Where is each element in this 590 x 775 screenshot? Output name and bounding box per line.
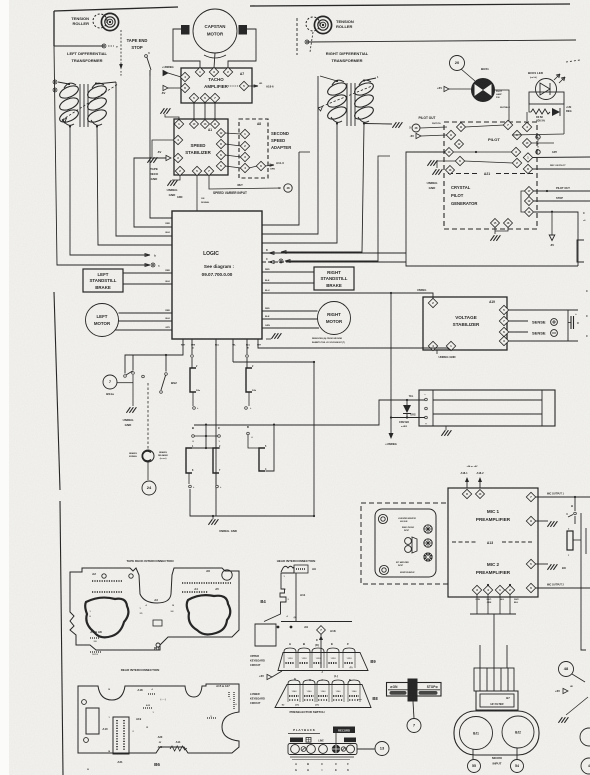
switch bar xyxy=(390,691,407,695)
pin 7 xyxy=(499,316,508,325)
pin 13 xyxy=(201,120,210,129)
contact dots xyxy=(349,695,359,697)
test dashed xyxy=(537,137,539,152)
wire BLK xyxy=(262,318,318,320)
pin 12 xyxy=(217,129,226,138)
DIN panel xyxy=(375,509,436,577)
wire xyxy=(108,45,114,47)
wire xyxy=(479,645,481,668)
supply +UNREG xyxy=(163,70,168,75)
strip line xyxy=(290,756,354,758)
wire xyxy=(479,478,481,488)
hole xyxy=(82,700,87,705)
switch bar xyxy=(419,691,438,695)
wire xyxy=(472,749,474,759)
hole xyxy=(379,565,388,574)
brush left xyxy=(181,25,190,35)
pin 6 xyxy=(499,327,508,336)
wire xyxy=(516,748,518,759)
wire bus xyxy=(470,613,516,615)
arrowhead xyxy=(145,254,150,257)
pin 1 xyxy=(446,341,455,350)
ground xyxy=(392,122,402,128)
wire long horizontal right xyxy=(308,40,576,42)
connector dots xyxy=(92,591,122,593)
wire xyxy=(567,310,569,341)
callout 55 xyxy=(468,760,481,773)
wire xyxy=(531,142,554,144)
wire xyxy=(117,382,133,384)
wire right xyxy=(581,513,586,650)
ground xyxy=(427,160,437,166)
wire xyxy=(574,497,576,511)
pin 2 xyxy=(223,67,232,76)
hatch block xyxy=(474,668,514,691)
switch hole xyxy=(347,745,355,753)
keyboard lower B8 xyxy=(275,685,371,708)
tension roller left xyxy=(71,13,118,30)
core line xyxy=(83,84,85,127)
wire top frame left xyxy=(54,7,178,11)
solenoid winding line xyxy=(433,413,542,415)
hole xyxy=(102,574,106,578)
contact dots xyxy=(286,662,295,664)
jack 2-7 xyxy=(213,448,219,473)
pin 3 xyxy=(209,67,218,76)
wire bundle L3 xyxy=(97,126,172,245)
amplifier A7 box xyxy=(181,68,252,103)
logic box U-LOGIC xyxy=(172,211,262,339)
micro input socket xyxy=(454,711,539,755)
pin 5 xyxy=(216,161,225,170)
wire xyxy=(487,594,489,614)
wire xyxy=(364,123,392,126)
motor right M3 xyxy=(318,302,351,335)
filter B7 box xyxy=(476,691,518,710)
wire GRY xyxy=(115,329,172,331)
wire xyxy=(563,104,565,134)
crossed-circle node xyxy=(279,259,283,263)
hatch line xyxy=(507,668,509,691)
ground xyxy=(547,521,557,527)
pin 6 xyxy=(526,583,535,592)
wire xyxy=(265,165,274,166)
pin 5 xyxy=(189,93,198,102)
switch hole xyxy=(291,745,300,754)
jack D2a xyxy=(190,368,196,392)
preamplifier A13 box xyxy=(448,488,538,597)
resistor R3-B8 xyxy=(531,109,550,114)
wire A11 xyxy=(295,573,297,621)
wire STOP xyxy=(533,200,590,202)
wire xyxy=(495,90,510,121)
board B6 outline xyxy=(78,684,239,753)
pin 3 xyxy=(173,153,182,162)
supply arrow xyxy=(267,674,272,679)
core line xyxy=(79,84,81,127)
ground xyxy=(432,169,442,175)
callout 24 xyxy=(142,481,156,495)
pin 6 xyxy=(256,161,265,170)
jack bar xyxy=(567,531,573,550)
adapter A8 dashed box xyxy=(239,119,268,178)
LED BCR1 xyxy=(529,92,564,104)
connector dots A6 xyxy=(182,582,231,584)
arrowhead xyxy=(285,260,290,263)
contact dots xyxy=(333,699,343,701)
wire xyxy=(436,350,438,354)
wire xyxy=(533,168,590,170)
contact arrow xyxy=(568,515,573,518)
pin 8 xyxy=(462,489,471,498)
pin 18 xyxy=(504,219,513,228)
diode xyxy=(552,108,560,116)
wire xyxy=(147,462,149,480)
pin 9 xyxy=(446,130,455,139)
A13 divider xyxy=(452,541,478,543)
wire xyxy=(320,76,337,81)
wire logic pin GRY to A19 xyxy=(258,339,451,350)
wire bundle R1 xyxy=(262,152,299,225)
wire bundle R4 xyxy=(281,124,364,253)
wire xyxy=(248,85,258,87)
pin 17 xyxy=(525,187,534,196)
connector 48 xyxy=(284,184,292,192)
page seam dashed xyxy=(296,18,298,55)
ground xyxy=(208,519,218,525)
tension roller right xyxy=(306,16,354,33)
pin 5 xyxy=(512,130,521,139)
contact dots xyxy=(304,699,314,701)
pin 2 xyxy=(505,585,514,594)
arrowhead xyxy=(318,106,323,111)
wire RED xyxy=(123,272,172,274)
hole xyxy=(84,738,89,743)
wire to solenoid YEL xyxy=(194,400,426,425)
hatch line xyxy=(479,668,481,691)
wire GRN xyxy=(262,327,319,329)
core line xyxy=(354,83,356,126)
dots xyxy=(296,568,306,570)
wire xyxy=(529,104,531,112)
strip dots xyxy=(123,720,125,750)
wire xyxy=(437,161,455,168)
solenoid box xyxy=(419,390,555,426)
pin 9 xyxy=(526,516,535,525)
wire speed varier xyxy=(209,175,281,189)
wire xyxy=(225,144,241,146)
wire +UNREG drop xyxy=(390,293,392,434)
wire xyxy=(534,212,578,266)
pin 4 xyxy=(428,341,437,350)
head bracket xyxy=(577,240,584,262)
wire logic pin GRN xyxy=(191,339,193,354)
wire logic pin BLU-B xyxy=(246,339,248,354)
switch BS1a blade xyxy=(126,371,133,375)
brake box right standstill xyxy=(314,267,354,290)
wire bundle R3 xyxy=(262,124,337,244)
wire xyxy=(320,635,322,653)
wire xyxy=(508,320,528,322)
wire xyxy=(193,102,195,120)
wire xyxy=(272,671,282,677)
wire logic pin BLU xyxy=(215,339,217,516)
socket BU1 xyxy=(460,717,493,750)
resistor A14 xyxy=(170,746,187,751)
pin 8 xyxy=(216,139,225,148)
B1 left blob xyxy=(85,598,128,638)
pin 2 xyxy=(175,166,184,175)
wire xyxy=(453,151,512,153)
wire xyxy=(512,134,564,135)
wire RED xyxy=(119,312,173,314)
ground xyxy=(167,180,177,186)
wire MIC OUTPUT 1 xyxy=(535,496,590,498)
CHO chip xyxy=(344,738,356,743)
wire xyxy=(551,212,553,235)
wire xyxy=(573,539,581,541)
diode CR2-B6 xyxy=(403,405,411,413)
arrowhead xyxy=(281,251,286,254)
wire logic pin WHT xyxy=(125,339,183,374)
wire RED xyxy=(262,310,318,312)
scan edge xyxy=(0,0,9,775)
motor capstan M1 xyxy=(193,9,237,53)
wire xyxy=(266,338,271,340)
small box xyxy=(306,738,311,743)
pin 2 xyxy=(512,158,521,167)
brake box left standstill xyxy=(83,269,123,292)
wire xyxy=(214,102,216,120)
contact dots xyxy=(349,699,359,701)
pin 1 xyxy=(495,585,504,594)
wire xyxy=(212,516,214,519)
wire xyxy=(194,435,217,437)
connector 48 xyxy=(412,124,420,132)
pin 10 xyxy=(190,120,199,129)
wire xyxy=(204,102,206,120)
core line xyxy=(87,84,89,127)
DIN socket xyxy=(424,539,432,547)
stabilizer A19 box xyxy=(423,297,507,350)
arrowhead xyxy=(270,164,274,166)
solenoid winding line xyxy=(433,399,542,401)
wire RED xyxy=(262,271,314,273)
wire xyxy=(58,82,69,84)
wire xyxy=(461,69,475,81)
supply -6V xyxy=(549,235,555,241)
wire BLK xyxy=(262,282,314,284)
switch slider xyxy=(408,679,418,702)
section divider upper xyxy=(54,292,60,490)
wire xyxy=(205,425,207,448)
switch hole xyxy=(319,745,328,754)
motor shaft arc xyxy=(204,55,226,58)
wire bundle L1 xyxy=(54,46,150,265)
contact dots xyxy=(345,662,354,664)
contact dots xyxy=(333,695,343,697)
B6 connector strip xyxy=(113,717,129,754)
jack 5-4 xyxy=(259,448,265,471)
wire xyxy=(508,340,578,342)
wire xyxy=(506,645,508,668)
callout 48 xyxy=(559,662,574,677)
record interlock symbol xyxy=(142,450,154,462)
callout partial xyxy=(581,758,590,774)
solenoid divider xyxy=(541,390,543,426)
wire BLK xyxy=(123,283,172,285)
generator A21 dashed box xyxy=(444,122,537,229)
DIN socket xyxy=(424,525,432,533)
core line xyxy=(346,83,348,126)
B6 inner rect xyxy=(86,708,99,734)
wire xyxy=(54,45,103,47)
supply +6V xyxy=(563,688,568,693)
arrowhead xyxy=(145,264,150,267)
wire dashed roller link left xyxy=(120,30,122,64)
B4 foot xyxy=(255,624,276,646)
arrowhead xyxy=(269,252,274,255)
wire xyxy=(225,166,241,168)
wire BS2 drop xyxy=(165,355,167,372)
hole xyxy=(129,574,133,578)
pin 10 xyxy=(476,490,485,499)
board B1 outline xyxy=(70,568,239,650)
contact dots xyxy=(318,695,328,697)
wire xyxy=(572,674,585,682)
wire D to jack xyxy=(248,435,259,448)
wire xyxy=(299,151,310,153)
dashed xyxy=(566,60,580,62)
switch tape-end-stop xyxy=(145,55,148,58)
transformer T-right xyxy=(326,80,348,97)
hatch line xyxy=(486,668,488,691)
wire xyxy=(420,127,447,128)
supply -6V xyxy=(163,85,168,90)
A13 divider xyxy=(502,541,534,543)
stabilizer A1 box xyxy=(174,119,228,175)
core line xyxy=(350,83,352,126)
photocell BG51 xyxy=(472,79,495,102)
pin 5 xyxy=(239,81,248,90)
jack D2b xyxy=(246,368,252,392)
hatch line xyxy=(500,668,502,691)
dark knob xyxy=(332,745,340,753)
wire jack bus xyxy=(186,447,220,449)
pin 4 xyxy=(180,72,189,81)
wire xyxy=(494,227,496,234)
pin 8 xyxy=(523,164,532,173)
pin 8 xyxy=(180,83,189,92)
wire through B9 xyxy=(320,652,322,668)
switch row box xyxy=(288,744,357,755)
strip dots xyxy=(116,720,118,750)
wire bundle L2 xyxy=(70,126,150,255)
contact dots xyxy=(329,662,338,664)
crossed-circle node xyxy=(53,80,57,84)
ground xyxy=(441,430,451,436)
ground xyxy=(147,157,157,163)
dashed coupling arrow xyxy=(318,86,372,108)
supply xyxy=(444,86,449,91)
wire xyxy=(509,594,511,614)
wire xyxy=(526,112,528,121)
pin 10 xyxy=(523,139,532,148)
wire bundle L6 xyxy=(150,70,172,218)
DIN socket xyxy=(424,553,432,561)
pin 7 xyxy=(503,120,512,129)
REC chip xyxy=(290,738,303,743)
supply xyxy=(416,133,421,138)
none xyxy=(436,163,450,166)
wire xyxy=(96,82,116,84)
crossed-circle node xyxy=(102,44,106,48)
wire xyxy=(225,133,241,134)
strip line xyxy=(292,759,350,761)
wire xyxy=(132,355,134,371)
wire vertical xyxy=(313,362,315,516)
arrowhead xyxy=(254,85,258,87)
led arrow xyxy=(559,77,565,83)
wire D xyxy=(262,252,406,254)
wire xyxy=(449,88,472,90)
wire xyxy=(464,161,513,163)
slashed xyxy=(341,747,345,751)
slashed xyxy=(301,747,306,752)
A21 divider xyxy=(448,173,478,175)
led arrow xyxy=(554,74,560,80)
ground xyxy=(126,407,136,413)
hole xyxy=(222,570,232,580)
wire bottom bus xyxy=(190,489,314,516)
DIN pair xyxy=(405,538,412,545)
supply -6V xyxy=(166,155,171,160)
contact dots xyxy=(289,695,299,697)
wire xyxy=(535,520,548,522)
wire to HF filter xyxy=(493,614,495,668)
wire xyxy=(228,29,256,68)
connector dots xyxy=(182,591,208,593)
contact dots xyxy=(289,699,299,701)
callout 54 xyxy=(511,760,524,773)
pin 13 xyxy=(446,166,455,175)
arrowhead xyxy=(62,118,67,123)
hole xyxy=(378,514,387,523)
ON STOP switch xyxy=(387,683,442,697)
wire xyxy=(535,563,548,565)
wire xyxy=(476,594,478,614)
wire C dashed xyxy=(262,261,288,263)
switch divider xyxy=(388,689,440,691)
dashed link xyxy=(147,383,149,449)
wire xyxy=(508,309,578,311)
callout 13 xyxy=(375,742,389,756)
sense plus xyxy=(551,319,558,326)
contact dots xyxy=(318,699,328,701)
wire on-signal xyxy=(196,175,198,211)
crossed-circle node xyxy=(151,263,155,267)
connector A9 xyxy=(294,565,308,573)
wire xyxy=(233,361,314,363)
wire xyxy=(508,331,528,333)
ground xyxy=(271,333,281,339)
pin 4 xyxy=(240,163,249,172)
wire bundle L4 xyxy=(116,82,172,236)
ground xyxy=(558,717,568,723)
pin 3 xyxy=(472,585,481,594)
pin 4 xyxy=(483,585,492,594)
scan noise overlay xyxy=(0,0,1,1)
